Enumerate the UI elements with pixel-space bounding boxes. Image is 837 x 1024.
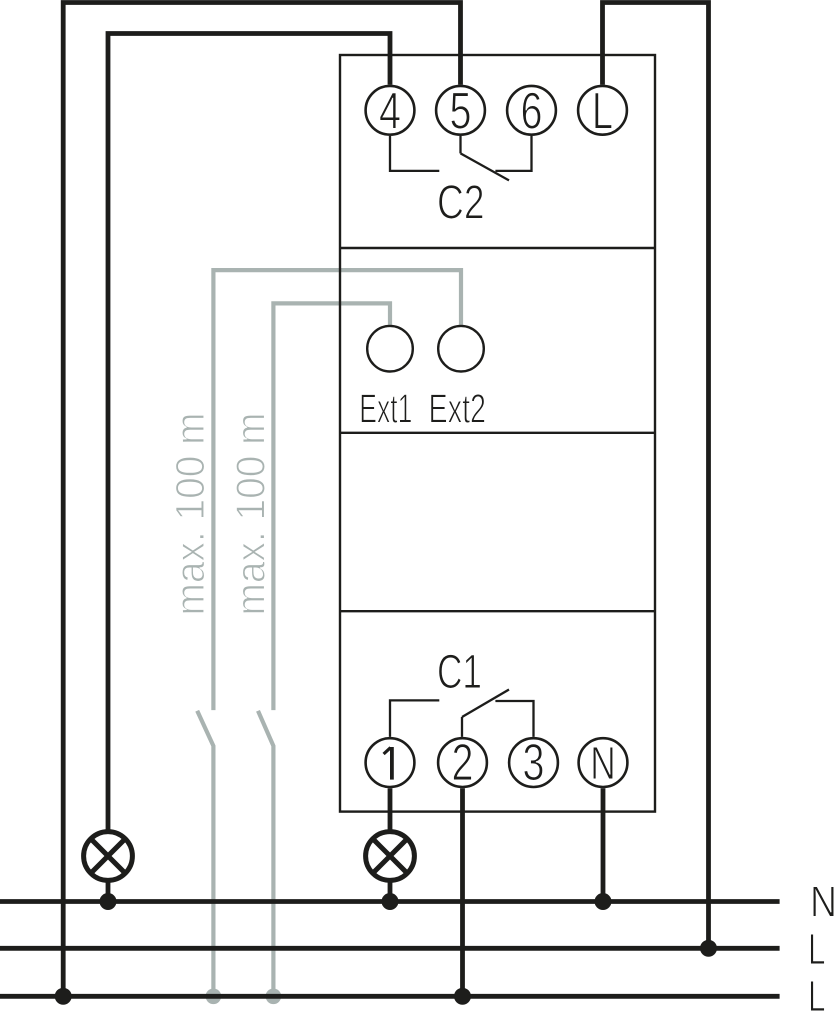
svg-text:max. 100 m: max. 100 m — [228, 413, 274, 616]
svg-text:L: L — [808, 972, 826, 1021]
junction lamp E2 on N bus — [382, 893, 399, 910]
contact C1 right fixed (terminal 3) — [495, 701, 533, 737]
junction terminal 2 wire on L2 bus — [454, 988, 471, 1005]
svg-text:L: L — [592, 82, 613, 140]
wire ext2 control (gray) upper run to Ext2 — [213, 270, 461, 710]
wire terminal N to N bus — [601, 788, 606, 901]
junction gray S2 on L bus — [266, 989, 282, 1005]
wire from terminal 5 to L bus (left outer) — [63, 3, 460, 997]
svg-text:4: 4 — [379, 82, 401, 140]
contact C1 left fixed (terminal 1) — [390, 700, 439, 737]
wire terminal 2 to L bus — [460, 788, 465, 996]
wire from terminal L to L bus (right) — [603, 3, 709, 949]
junction left wire on L2 bus — [55, 988, 72, 1005]
terminal 5 — [436, 86, 485, 135]
terminal 3 — [509, 738, 558, 787]
junction right wire on L1 bus — [700, 940, 717, 957]
terminal L — [578, 86, 627, 135]
svg-text:3: 3 — [523, 733, 545, 791]
svg-text:Ext2: Ext2 — [429, 385, 487, 431]
contact C2 right fixed (terminal 6) — [495, 136, 531, 171]
svg-text:max. 100 m: max. 100 m — [167, 413, 213, 616]
divider 2 — [340, 432, 655, 434]
terminal 2 — [438, 738, 487, 787]
device box — [340, 55, 655, 812]
contact C2 common drop (terminal 5) — [459, 136, 461, 153]
push button S2 blade and lower wire — [258, 711, 273, 997]
terminal 1 — [366, 738, 415, 787]
wire ext1 control (gray) upper run to Ext1 — [273, 303, 390, 710]
lamp E2 — [366, 832, 415, 881]
wire lamp E2 to N bus — [388, 881, 393, 901]
svg-text:2: 2 — [452, 733, 474, 791]
svg-text:L: L — [808, 925, 826, 974]
bus L1 — [0, 946, 780, 951]
terminal 4 — [366, 86, 415, 135]
wire terminal 1 to lamp E2 — [388, 788, 393, 830]
bus L2 — [0, 994, 780, 999]
svg-text:N: N — [590, 737, 616, 789]
svg-text:5: 5 — [450, 82, 472, 140]
svg-text:6: 6 — [521, 82, 543, 140]
junction terminal N wire on N bus — [595, 893, 612, 910]
terminal Ext1 — [367, 326, 413, 372]
contact C1 common stub (terminal 2) — [461, 717, 463, 737]
terminal 6 — [507, 86, 556, 135]
wire lamp E1 to N bus — [106, 881, 111, 901]
svg-text:C2: C2 — [437, 176, 485, 230]
junction lamp E1 on N bus — [100, 893, 117, 910]
contact C2 left fixed (terminal 4) — [390, 136, 439, 171]
svg-text:Ext1: Ext1 — [359, 385, 412, 431]
divider 3 — [340, 610, 655, 612]
svg-text:C1: C1 — [437, 645, 482, 699]
contact C1 blade — [462, 690, 509, 718]
terminal N — [579, 738, 628, 787]
lamp E1 — [84, 832, 133, 881]
junction gray S1 on L bus — [206, 989, 222, 1005]
contact C2 blade — [461, 153, 510, 180]
wire from terminal 4 to lamp E1 — [108, 34, 390, 831]
svg-text:N: N — [810, 877, 837, 926]
divider 1 — [340, 247, 655, 249]
bus N — [0, 899, 780, 904]
terminal Ext2 — [438, 326, 484, 372]
push button S1 blade and lower wire — [197, 711, 213, 997]
